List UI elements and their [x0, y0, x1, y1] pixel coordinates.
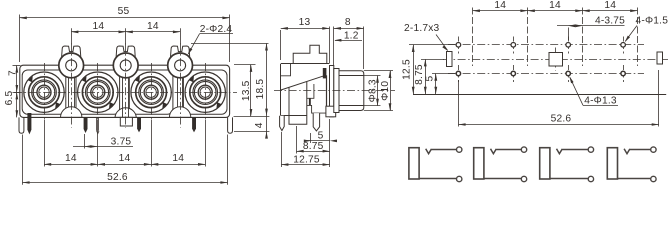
front view: mount M3 vertical centerline — [180, 44, 182, 128]
front view: bottom arch cutout 2 — [115, 108, 136, 118]
svg-text:4: 4 — [254, 122, 265, 128]
front view: mounting boss M3 strip — [177, 78, 179, 107]
pcb layout: signal pin column 1 extension line — [472, 8, 474, 67]
svg-text:12.5: 12.5 — [401, 59, 412, 80]
svg-text:5: 5 — [318, 130, 324, 141]
front view: ground pin B (filled) — [84, 117, 88, 133]
dimension 4 pin length (right of front view) — [234, 116, 270, 118]
pcb layout: signal pin column 2 extension line — [527, 8, 529, 67]
side view: collar — [334, 69, 339, 113]
jack J4 key tabs — [189, 76, 194, 83]
svg-text:2-1.7x3: 2-1.7x3 — [404, 23, 440, 34]
svg-text:13.5: 13.5 — [241, 80, 252, 101]
svg-text:Φ10: Φ10 — [380, 81, 391, 101]
jack schematic symbol 4: tip terminal — [630, 149, 651, 151]
jack schematic symbol 1: body — [409, 148, 419, 179]
side view: front bracket pin — [280, 116, 285, 131]
dimension 5 (pcb left) — [432, 73, 455, 75]
svg-text:14: 14 — [604, 0, 616, 11]
svg-text:8.75: 8.75 — [414, 64, 425, 85]
dimension 5 (side bottom) — [310, 133, 312, 143]
svg-text:14: 14 — [549, 0, 561, 11]
svg-text:4-Φ1.5: 4-Φ1.5 — [636, 16, 669, 27]
svg-text:52.6: 52.6 — [107, 172, 128, 183]
svg-text:14: 14 — [65, 153, 77, 164]
front view: mount M1 vertical centerline — [71, 44, 73, 128]
jack schematic symbol 2: tip terminal — [496, 149, 521, 151]
pcb layout: hole column 3 centerline — [568, 37, 570, 54]
jack schematic symbol 4: switch contact V — [624, 149, 630, 154]
svg-text:12.75: 12.75 — [293, 154, 320, 165]
side view: bottom edge segment — [281, 115, 289, 117]
front view: RCA jack J4 concentric rings — [185, 72, 225, 112]
dimension 8.75 (pcb left) — [421, 59, 444, 61]
jack schematic symbol 1: ground terminal — [419, 178, 456, 180]
svg-text:55: 55 — [118, 6, 130, 17]
pcb layout: board bottom edge — [413, 94, 666, 96]
pcb layout: hole column 1 centerline — [458, 37, 460, 54]
svg-text:1.2: 1.2 — [344, 30, 359, 41]
dimension 13 (side view top) — [280, 30, 282, 60]
svg-text:14: 14 — [147, 21, 159, 32]
front view: jack J1 vertical centerline — [44, 63, 46, 120]
side view: barrel phi10 — [339, 71, 364, 111]
front view: jack J1 flange plate — [22, 70, 66, 114]
front view: ground pin C (filled) — [137, 117, 141, 132]
front view: RCA jack J2 concentric rings — [78, 72, 118, 112]
pcb layout: right slot — [657, 52, 663, 64]
jack schematic symbol 2: body — [474, 148, 484, 179]
front view: connector body outline — [20, 65, 230, 117]
svg-text:4-3.75: 4-3.75 — [595, 16, 625, 27]
jack schematic symbol 3: tip terminal — [562, 149, 588, 151]
pcb layout: horizontal centerlines — [443, 59, 668, 61]
dimension 52.6 (pcb bottom) — [458, 80, 460, 127]
pcb layout: top hole 4 phi1.5 — [621, 43, 626, 48]
dimension phi10 (barrel outer) — [364, 70, 393, 72]
dimension phi8.3 (barrel bore) — [364, 75, 381, 77]
side view: ground pin — [313, 113, 319, 131]
front view: mounting hole boss M3 (2-phi2.4) — [168, 53, 193, 78]
jack schematic symbol 4: body — [607, 148, 617, 179]
front view: horizontal centerline — [14, 92, 237, 94]
side view: inner steps right of leg — [307, 84, 314, 98]
front view: ground pin D (filled) — [192, 117, 196, 132]
front view: right shield bracket pin — [228, 117, 233, 133]
dimension 7 and 6.5 (left side) — [16, 65, 18, 117]
front view: signal pin at column 2 (hidden outline) — [96, 117, 98, 130]
pcb layout: top hole 2 phi1.5 — [511, 43, 516, 48]
pcb layout: center square hole — [549, 53, 563, 67]
side view: inner step — [281, 64, 291, 76]
svg-text:18.5: 18.5 — [255, 79, 266, 100]
pcb layout: center square centerline — [555, 48, 557, 71]
side view: housing top profile steps — [293, 45, 327, 64]
front view: center boss foot tab — [120, 117, 132, 126]
front view: mounting boss M3 ears — [170, 46, 189, 59]
side view: diagonal edge — [281, 75, 326, 90]
front view: jack J3 flange plate — [129, 70, 173, 114]
svg-text:13: 13 — [299, 17, 311, 28]
pcb layout: top hole 1 phi1.5 — [456, 43, 461, 48]
side view: center leg — [289, 82, 307, 125]
front view: mounting boss M2 ears — [116, 46, 135, 59]
svg-text:14: 14 — [119, 153, 131, 164]
side view: barrel centerline — [274, 90, 395, 92]
pcb layout: bottom hole 1 phi1.3 — [456, 71, 460, 75]
jack schematic symbol 3: ground terminal — [550, 178, 588, 180]
front view: mount M2 vertical centerline — [125, 44, 127, 128]
side view: housing top edge — [281, 63, 330, 65]
side view: lower nub below barrel — [326, 106, 336, 117]
front view: RCA jack J3 concentric rings — [131, 72, 171, 112]
svg-text:3.75: 3.75 — [111, 136, 132, 147]
svg-text:14: 14 — [93, 21, 105, 32]
dimension 14x3 bottom pin pitch — [44, 120, 46, 167]
front view: mounting hole boss M2 (2-phi2.4) — [113, 53, 138, 78]
pcb layout: top hole 3 phi1.5 — [566, 43, 571, 48]
dimension 12.75 (side bottom) — [281, 132, 283, 167]
pcb layout: signal pin column 3 extension line — [582, 8, 584, 67]
dimension 8 (side view top) — [333, 27, 335, 67]
svg-text:52.6: 52.6 — [551, 114, 572, 125]
side view: contact detail near flange — [323, 68, 327, 78]
dimension 8.75 (side bottom) — [296, 126, 298, 154]
front view: mounting hole boss M1 (2-phi2.4) — [59, 53, 84, 78]
pcb layout: hole column 2 centerline — [513, 37, 515, 54]
jack schematic symbol 2: switch contact V — [491, 149, 497, 154]
svg-text:7: 7 — [7, 70, 18, 76]
front view: jack J4 flange plate — [183, 70, 227, 114]
pcb layout: bottom hole 4 phi1.3 — [621, 71, 625, 75]
front view: mounting boss M1 strip — [68, 78, 70, 107]
pcb layout: bottom hole 2 phi1.3 — [511, 71, 515, 75]
dimension 55 overall width (top) — [19, 15, 21, 63]
jack J3 key tabs — [135, 76, 140, 83]
pcb layout: signal pin column 4 extension line — [637, 8, 639, 67]
front view: left shield bracket pin — [19, 117, 24, 133]
dimension 52.6 overall (front bottom) — [22, 135, 24, 185]
jack schematic symbol 3: body — [540, 148, 550, 179]
svg-text:14: 14 — [494, 0, 506, 11]
dimension 3.75 (bottom, pin offset) — [84, 134, 86, 149]
jack schematic symbol 1: tip terminal — [432, 149, 457, 151]
svg-text:14: 14 — [172, 153, 184, 164]
front view: mounting boss M2 strip — [122, 78, 124, 118]
dimension 14 / 14 between mounting holes (top) — [71, 28, 73, 44]
side view: barrel bore phi8.3 lines — [339, 75, 364, 77]
front view: bottom arch cutout 1 — [61, 107, 82, 118]
dimension 14x3 (pcb top) — [473, 10, 638, 12]
front view: RCA jack J1 concentric rings — [24, 72, 64, 112]
jack schematic symbol 1: switch contact V — [426, 149, 432, 154]
front view: jack J3 vertical centerline — [151, 63, 153, 120]
svg-text:8: 8 — [345, 17, 351, 28]
front view: jack J2 flange plate — [76, 70, 120, 114]
dimension 12.5 (pcb left) — [409, 44, 455, 46]
side view: housing left edge — [280, 64, 282, 116]
pcb layout: bottom hole 3 phi1.3 — [566, 71, 570, 75]
jack J2 key tabs — [82, 76, 87, 83]
jack schematic symbol 4: ground terminal — [618, 178, 651, 180]
side view: flange plate — [330, 66, 334, 117]
front view: mounting boss M1 ears — [62, 46, 81, 59]
front view: ground pin A (filled) — [27, 113, 31, 134]
svg-text:4-Φ1.3: 4-Φ1.3 — [584, 96, 617, 107]
svg-text:6.5: 6.5 — [4, 90, 15, 105]
dimension 13.5 (right of front view) — [234, 64, 256, 66]
front view: jack J2 vertical centerline — [97, 63, 99, 120]
front view: bottom arch cutout 3 — [169, 107, 190, 118]
front view: jack J4 vertical centerline — [205, 63, 207, 120]
pcb layout: hole column 4 centerline — [623, 37, 625, 54]
svg-text:5: 5 — [425, 75, 436, 81]
svg-text:Φ8.3: Φ8.3 — [367, 79, 378, 102]
svg-text:8.75: 8.75 — [303, 141, 324, 152]
jack schematic symbol 3: switch contact V — [557, 149, 563, 154]
jack schematic symbol 2: ground terminal — [484, 178, 521, 180]
pcb layout: left slot 1.7x3 — [447, 52, 453, 67]
dimension 18.5 (right of front view) — [191, 43, 269, 45]
jack J1 key tabs — [28, 76, 33, 83]
